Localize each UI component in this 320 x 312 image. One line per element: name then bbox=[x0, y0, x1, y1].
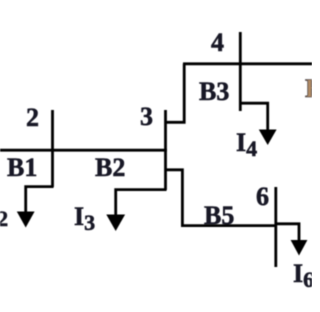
svg-text:B2: B2 bbox=[95, 153, 125, 182]
svg-text:4: 4 bbox=[211, 28, 224, 57]
wire: riser bus 3 to branch B3 line bbox=[165, 64, 185, 123]
wire: branch B5 from bus 3 to bus 6 bbox=[165, 170, 277, 226]
svg-text:B4: B4 bbox=[305, 74, 312, 103]
svg-text:2: 2 bbox=[26, 103, 39, 132]
svg-text:I3: I3 bbox=[74, 202, 95, 235]
wire: load I3 drop from bus 3 bbox=[116, 190, 167, 217]
svg-text:I2: I2 bbox=[0, 198, 8, 231]
wire: load I2 drop from bus 2 bbox=[26, 187, 54, 214]
wire: load I6 drop from bus 6 bbox=[275, 224, 299, 242]
arrowhead load I2 bbox=[17, 212, 35, 228]
svg-text:I6: I6 bbox=[293, 259, 312, 292]
svg-text:3: 3 bbox=[140, 102, 153, 131]
wire: main feeder line bus1 to bus3 bbox=[0, 149, 167, 152]
bus 6 bar bbox=[274, 187, 277, 267]
svg-text:B3: B3 bbox=[199, 77, 229, 106]
arrowhead load I3 bbox=[106, 215, 125, 232]
svg-text:B1: B1 bbox=[7, 153, 37, 182]
svg-text:I4: I4 bbox=[236, 128, 257, 161]
svg-text:6: 6 bbox=[256, 182, 269, 211]
bus 2 bar bbox=[51, 110, 54, 187]
svg-text:B5: B5 bbox=[204, 201, 234, 230]
bus 4 bar bbox=[239, 32, 242, 111]
wire: branch B3 line to bus 4 and beyond (B4) bbox=[183, 62, 312, 65]
wire: load I4 drop from bus 4 bbox=[239, 103, 268, 132]
bus 3 bar bbox=[164, 110, 167, 190]
arrowhead load I6 bbox=[291, 240, 308, 256]
arrowhead load I4 bbox=[259, 130, 277, 146]
